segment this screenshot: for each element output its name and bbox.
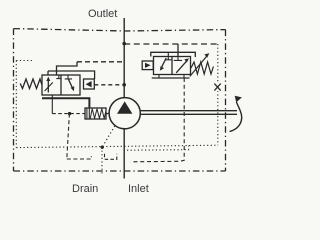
svg-text:Drain: Drain — [72, 183, 98, 195]
pilot line outlet to PC (dashed top) — [124, 43, 218, 45]
PC top bracket — [151, 52, 196, 57]
svg-text:Outlet: Outlet — [88, 8, 117, 20]
PC bottom stub right — [183, 75, 185, 79]
junction dot on outlet line (pilot tap lower) — [122, 83, 126, 87]
shaft rotation arrow arc — [230, 102, 242, 132]
dotted rail top-left stub — [16, 60, 33, 62]
pump circle — [109, 98, 140, 129]
PC top stub mid-left — [167, 52, 169, 56]
svg-text:Inlet: Inlet — [128, 183, 149, 195]
FC upper wide port line — [48, 71, 95, 79]
FC right cell T-port stub — [65, 75, 72, 79]
bias spring zigzag — [90, 109, 106, 119]
PC bottom port line — [152, 77, 190, 79]
drain line dashed vertical — [67, 114, 70, 159]
dotted drain rail bottom — [16, 145, 218, 147]
FC left cell arrow (up) with slash — [47, 79, 49, 93]
PC adjustable spring (right) — [191, 62, 213, 74]
inlet line (vertical) — [123, 129, 125, 179]
PC pilot box (left side, triangle) — [142, 61, 153, 70]
drain line U hook under junction — [105, 154, 117, 160]
bias piston box with spring — [85, 108, 106, 119]
PC drain dashed vertical — [131, 78, 185, 162]
shaft rotation arrowhead — [235, 96, 242, 103]
PC spring adjust arrow — [190, 56, 207, 77]
pump flow triangle (filled, up) — [117, 101, 132, 113]
pump case drain dotted diagonal — [102, 126, 115, 147]
enclosure boundary (dash-dot) bottom — [14, 170, 226, 172]
junction dot on drain line — [68, 112, 71, 115]
enclosure boundary (dash-dot) top — [14, 29, 226, 31]
drain port dotted vertical — [101, 147, 103, 176]
PC bottom stub left — [158, 75, 160, 79]
FC right cell arrow (down-right diagonal) — [68, 79, 73, 89]
enclosure boundary (dash-dot) right — [225, 30, 227, 171]
FC top port stub left — [47, 71, 49, 75]
PC pilot drop from dashed line — [177, 44, 179, 57]
pressure compensator valve PC body — [154, 57, 191, 75]
pilot line pilot-box to outlet (dashed) — [94, 84, 124, 86]
pilot/drain dotted line right vertical — [217, 44, 219, 145]
dotted rail left vertical — [15, 61, 17, 148]
outlet line (vertical) — [123, 18, 125, 98]
FC center partition — [60, 75, 62, 95]
PC right cell arrow (up-right) — [176, 60, 187, 73]
PC left cell T-port stub — [165, 57, 172, 60]
PC left cell arrow (down-left) — [161, 58, 166, 68]
PC right cell T-port stub — [174, 57, 182, 61]
plugged port X symbol — [214, 83, 221, 91]
junction dot on outlet line (pilot tap upper) — [122, 42, 126, 46]
FC spring (left) — [20, 79, 42, 89]
FC drain stub — [51, 95, 53, 114]
enclosure boundary (dash-dot) left — [13, 29, 15, 171]
link piston box to pump — [106, 113, 109, 115]
junction dot on dotted rail — [101, 146, 104, 149]
FC top port line to bracket — [57, 62, 78, 75]
drain line dashed horizontal to bias piston — [52, 113, 85, 115]
dotted spur to pressure-comp drain — [127, 146, 189, 151]
drain line dashed horizontal bottom — [67, 156, 92, 159]
FC left cell T-port stub — [56, 75, 61, 79]
drive shaft (double line) — [140, 110, 237, 112]
flow compensator valve FC body — [42, 75, 80, 95]
PC center partition — [171, 57, 173, 75]
pilot line FC to outlet (dashed upper) — [77, 61, 124, 63]
FC bottom bracket line — [42, 98, 89, 108]
bias piston plate lines — [86, 108, 88, 119]
FC pilot box (right side, triangle) — [84, 79, 95, 89]
